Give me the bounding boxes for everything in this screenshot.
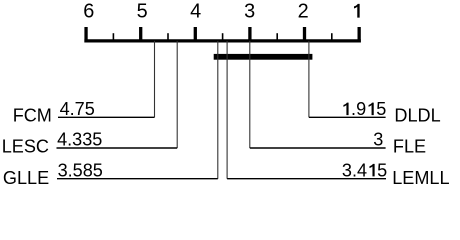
axis number 1 <box>354 4 360 18</box>
svg-text:4.75: 4.75 <box>60 99 95 119</box>
svg-text:9: 9 <box>356 99 366 119</box>
axis main line <box>84 39 360 42</box>
major tick 2 <box>303 27 306 43</box>
rank value 3.415 <box>342 160 387 180</box>
FCM connector wire <box>154 41 156 117</box>
svg-text:5: 5 <box>376 99 386 119</box>
major tick 6 <box>84 27 87 43</box>
GLLE connector wire <box>217 41 219 179</box>
DLDL connector wire <box>308 41 310 117</box>
svg-text:4.335: 4.335 <box>57 130 102 150</box>
minor tick 3.5 <box>222 33 224 42</box>
svg-text:3.585: 3.585 <box>58 160 103 180</box>
svg-text:GLLE: GLLE <box>3 168 49 188</box>
rank value 1.915 <box>343 99 386 119</box>
svg-text:3: 3 <box>373 130 383 150</box>
LEMLL connector wire <box>226 41 228 179</box>
svg-text:5: 5 <box>377 160 387 180</box>
svg-text:6: 6 <box>83 1 94 23</box>
minor tick 2.5 <box>276 33 278 42</box>
minor tick 1.5 <box>331 33 333 42</box>
major tick 5 <box>139 27 142 43</box>
minor tick 4.5 <box>167 33 169 42</box>
critical difference bar <box>214 54 313 60</box>
svg-text:DLDL: DLDL <box>394 106 440 126</box>
major tick 3 <box>248 27 251 43</box>
svg-text:5: 5 <box>137 1 148 23</box>
FLE connector wire <box>249 41 251 148</box>
LESC connector wire <box>176 41 178 148</box>
svg-text:FCM: FCM <box>13 106 52 126</box>
svg-text:LESC: LESC <box>2 136 49 156</box>
svg-text:LEMLL: LEMLL <box>392 168 449 188</box>
svg-text:FLE: FLE <box>393 136 426 156</box>
major tick 1 <box>357 27 360 43</box>
svg-text:4: 4 <box>357 160 367 180</box>
major tick 4 <box>194 27 197 43</box>
svg-text:3: 3 <box>342 160 352 180</box>
svg-text:2: 2 <box>298 1 309 23</box>
minor tick 5.5 <box>112 33 114 42</box>
svg-text:3: 3 <box>244 1 255 23</box>
svg-text:4: 4 <box>190 1 201 23</box>
